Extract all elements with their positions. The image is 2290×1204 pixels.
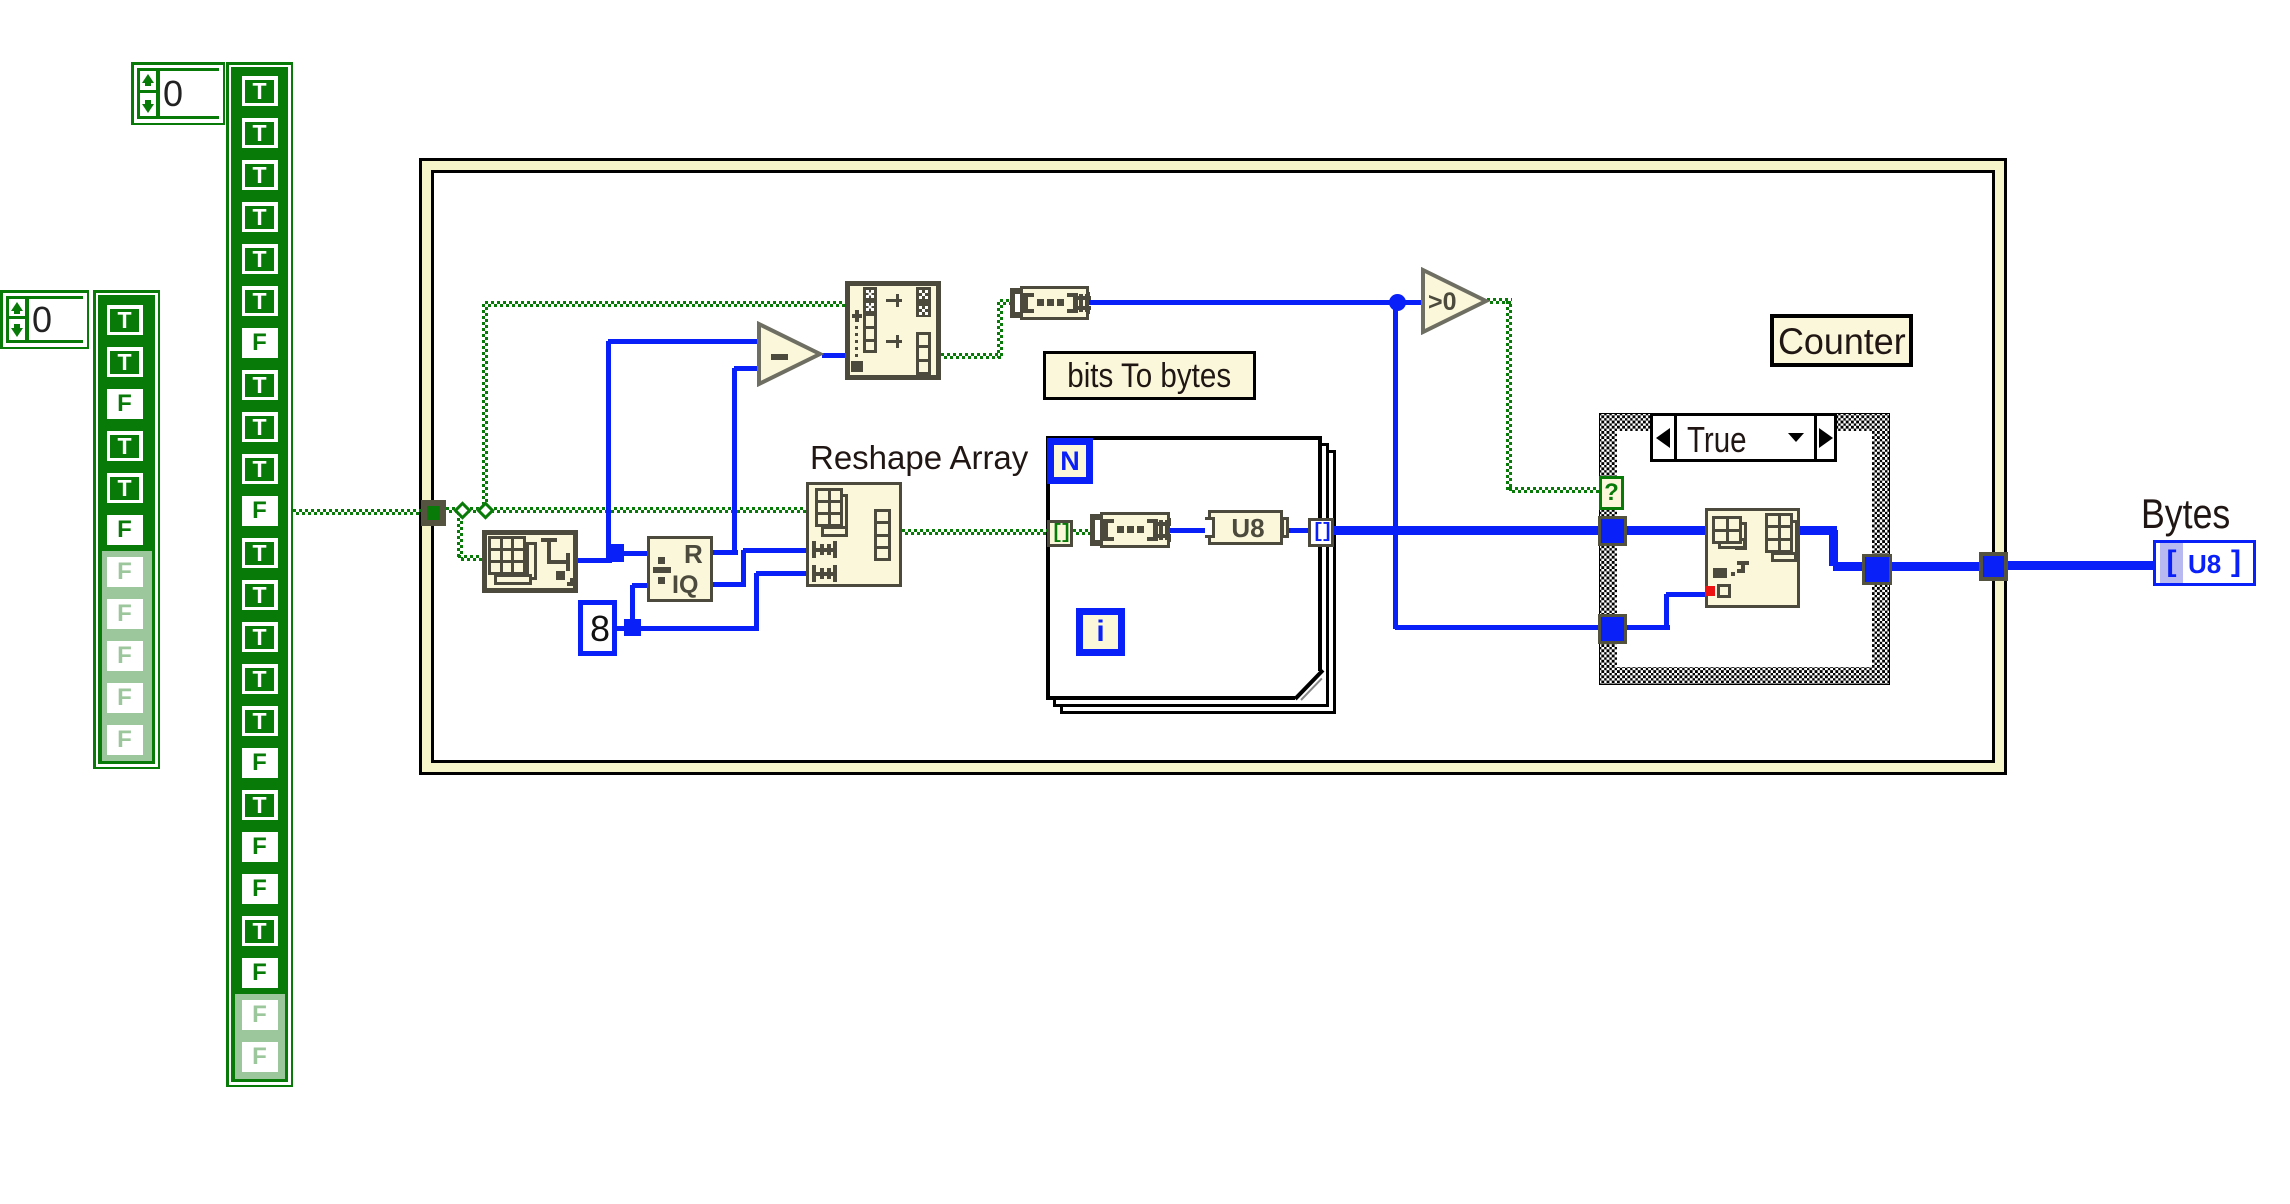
- node: replace array subset: [1705, 508, 1800, 608]
- RAS glyph open square: [1717, 584, 1731, 598]
- selector glyph T-bar: [541, 538, 557, 542]
- grid 3x3: [488, 536, 526, 575]
- case selector label box: [1650, 413, 1837, 462]
- reshape grid shadow bottom: [821, 526, 848, 537]
- split icon arrow 1: [886, 299, 902, 302]
- split icon arrow 2: [886, 340, 902, 343]
- wire: replace-array-subset output (thick): [1800, 526, 1837, 535]
- array 2 index control: [0, 290, 89, 349]
- indicator right bracket: [2231, 543, 2251, 583]
- node: quotient and remainder: [647, 536, 713, 602]
- node: to U8 conversion: [1208, 510, 1283, 545]
- wire: U8 to loop tunnel: [1283, 528, 1308, 533]
- node: split 1d array: [845, 281, 941, 380]
- wire: junction up to divide y input: [630, 585, 635, 621]
- grid shadow bottom: [494, 574, 532, 585]
- IQ label: [672, 571, 714, 599]
- numeric constant 8: [578, 600, 617, 656]
- wire: branch up from knot: [482, 304, 488, 512]
- array 1 index control: [131, 62, 225, 125]
- wire: tunnel to reshape array input: [446, 507, 806, 513]
- wire: reshape output to for-loop tunnel: [902, 529, 1047, 535]
- R label: [684, 539, 714, 567]
- wire knot junction 2: [476, 501, 494, 519]
- case selector left arrow: [1656, 428, 1670, 448]
- label Reshape Array: [810, 439, 1050, 475]
- wire: case to frame tunnel (thick): [1891, 562, 1980, 571]
- for loop stacked page 2: [1053, 443, 1329, 707]
- wire: split output up: [997, 302, 1003, 358]
- for loop right tunnel: [1308, 518, 1334, 547]
- wire: frame tunnel to Bytes indicator (thick): [2008, 561, 2153, 570]
- wire: into case right tunnel (thick): [1833, 562, 1863, 571]
- frame tunnel (byte array out): [1979, 552, 2008, 581]
- label Counter: [1770, 314, 1913, 367]
- selector glyph square: [556, 571, 565, 580]
- wire: tunnel to array-size inside loop: [1073, 529, 1092, 535]
- divide glyph: [658, 557, 665, 564]
- for loop dog-ear corner: [1295, 671, 1322, 700]
- boolean array constant 2 (short): [93, 290, 160, 769]
- wire: divide IQ output: [713, 582, 746, 587]
- node: reshape array: [806, 482, 902, 587]
- node: array size 2 (inside loop): [1090, 514, 1095, 546]
- wire: into reshape dim1: [743, 548, 806, 553]
- wire junction square 1: [606, 544, 624, 562]
- case selector True text: [1687, 419, 1797, 455]
- wire junction square 2: [624, 619, 641, 636]
- wire: into divide y input: [632, 583, 647, 588]
- wire: case tunnel to replace-array-subset (thick): [1626, 526, 1705, 535]
- wire: array-size2 to U8: [1170, 528, 1208, 533]
- RAS grid right: [1765, 513, 1793, 553]
- frame tunnel (boolean array in): [421, 500, 446, 526]
- grid shadow right: [526, 542, 537, 580]
- wire: junction up to subtract: [606, 341, 611, 547]
- reshape grid shadow right: [836, 494, 848, 532]
- wire: IQ up to reshape dim1: [741, 550, 746, 586]
- wire: to case lower tunnel: [1395, 625, 1599, 630]
- wire: 8-junction to reshape dim2: [638, 626, 759, 631]
- wire: down to case selector: [1506, 301, 1512, 491]
- wire: boolean array to frame tunnel: [293, 509, 421, 515]
- wire: to case ? tunnel: [1509, 487, 1599, 493]
- label bits To bytes: [1043, 351, 1256, 400]
- reshape grid 2x3: [815, 488, 843, 527]
- wire: branch down to to-1D-array node: [457, 512, 463, 558]
- wire knot junction 1: [453, 501, 471, 519]
- case right tunnel: [1862, 554, 1892, 585]
- wire junction dot: [1389, 294, 1406, 311]
- U8 text: [1222, 513, 1274, 541]
- for loop stacked page 3: [1060, 450, 1336, 714]
- wire: to split-1d-array input: [485, 301, 845, 307]
- node: subtract: [756, 321, 824, 387]
- U8 left notch: [1205, 517, 1215, 538]
- svg-text:>0: >0: [1428, 288, 1457, 316]
- split icon left array top: [863, 287, 877, 313]
- case selector right arrow: [1819, 428, 1833, 448]
- wire: subtract output to split index: [822, 353, 845, 358]
- wire: up to reshape dim2: [754, 573, 759, 630]
- U8 right tab: [1281, 517, 1289, 538]
- boolean array constant 1 (tall): [226, 62, 293, 1087]
- indicator [U8] Bytes: [2153, 540, 2256, 586]
- split icon small square: [851, 361, 863, 372]
- for loop N terminal: [1047, 438, 1093, 484]
- wire: greater-than-0 output: [1487, 298, 1512, 304]
- case left upper tunnel: [1598, 516, 1627, 546]
- outer sequence frame: [419, 158, 2007, 775]
- node: array size 1: [1010, 288, 1015, 318]
- wire: into reshape dim2: [756, 571, 806, 576]
- for loop left tunnel: [1047, 520, 1073, 547]
- wire: byte array loop to case (thick): [1334, 526, 1599, 535]
- wire: into RAS index input: [1666, 592, 1705, 597]
- case ? selector tunnel: [1599, 476, 1624, 510]
- case left lower tunnel: [1598, 614, 1627, 644]
- wire: up to RAS index input: [1664, 594, 1669, 627]
- wire: junction to divide x input: [620, 551, 647, 556]
- wire: array size to greater-than-0: [1088, 300, 1422, 305]
- split icon right array top: [916, 287, 931, 317]
- wire: array-to-num output to junction: [578, 558, 612, 563]
- wire: down to case right tunnel (thick): [1829, 530, 1838, 566]
- node: array conversion (grid icon): [482, 530, 578, 593]
- case selector dropdown arrow: [1788, 433, 1804, 442]
- RAS grid left: [1712, 516, 1742, 544]
- indicator U8 text: [2188, 549, 2232, 579]
- split icon right array bottom: [916, 332, 931, 375]
- wire: into to-1D-array node: [458, 555, 484, 561]
- case structure border (checkered): [1599, 413, 1890, 685]
- label Bytes: [2141, 490, 2271, 536]
- wire: into array-size: [1000, 299, 1012, 305]
- for loop i terminal: [1076, 608, 1125, 656]
- wire: case lower tunnel inside: [1626, 625, 1670, 630]
- reshape dim glyph 1: [812, 541, 816, 558]
- RAS glyph arrow: [1741, 561, 1745, 573]
- node: greater than 0?: [1420, 267, 1490, 335]
- split icon branch: [852, 314, 862, 318]
- split icon left array bottom: [863, 313, 877, 353]
- wire: split output: [941, 353, 1003, 359]
- wire: divide R output: [713, 550, 738, 555]
- wire: R up to subtract: [732, 368, 737, 554]
- wire: to subtract top input: [608, 339, 770, 344]
- wire: size down to case tunnel: [1393, 302, 1398, 629]
- wire: const 8 to junction: [617, 626, 629, 631]
- RAS glyph square: [1713, 568, 1727, 578]
- reshape out column: [874, 509, 891, 561]
- for loop main frame: [1046, 436, 1322, 700]
- coercion red dot: [1705, 586, 1715, 596]
- indicator bracket box: [2160, 543, 2183, 583]
- reshape dim glyph 2: [812, 565, 816, 582]
- wire: into subtract bottom input: [734, 366, 773, 371]
